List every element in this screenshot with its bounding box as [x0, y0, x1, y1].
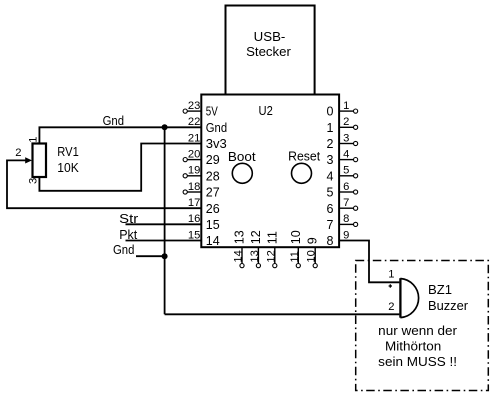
svg-text:5: 5: [327, 186, 334, 200]
svg-text:27: 27: [206, 186, 220, 200]
potentiometer RV1 body: [33, 144, 47, 178]
wire U2 pin 9 to buzzer pin 1: [339, 241, 399, 283]
svg-text:3v3: 3v3: [206, 137, 227, 151]
U2 bottom pin 10 (name 9): [306, 237, 320, 268]
svg-text:2: 2: [388, 301, 394, 313]
svg-text:23: 23: [188, 100, 200, 112]
BZ1 plus polarity mark: [389, 284, 392, 287]
junction Gnd rail top: [162, 124, 168, 130]
U2 right pin 7 (name 6): [327, 197, 358, 216]
svg-text:13: 13: [249, 250, 261, 262]
U2 left pin 19 (name 28): [183, 165, 220, 184]
svg-text:sein MUSS !!: sein MUSS !!: [378, 354, 457, 369]
svg-text:1: 1: [388, 269, 394, 281]
svg-text:Gnd: Gnd: [113, 243, 134, 257]
svg-text:10: 10: [289, 230, 303, 244]
svg-text:U2: U2: [259, 103, 273, 118]
op IC U2 body: [201, 95, 339, 248]
wire Gnd: pot pin1 to U2 pin 22: [39, 127, 201, 143]
svg-text:1: 1: [27, 137, 39, 143]
U2 right pin 2 (name 1): [327, 116, 358, 135]
svg-text:5V: 5V: [206, 105, 219, 119]
svg-text:Stecker: Stecker: [246, 44, 291, 59]
svg-text:Boot: Boot: [228, 150, 256, 164]
svg-text:BZ1: BZ1: [428, 283, 452, 297]
U2 left pin 18 (name 27): [183, 181, 220, 200]
svg-text:10K: 10K: [57, 161, 79, 175]
svg-text:2: 2: [15, 147, 21, 159]
svg-text:12: 12: [265, 250, 277, 262]
svg-text:8: 8: [327, 234, 334, 248]
svg-text:11: 11: [289, 251, 301, 263]
svg-text:10: 10: [306, 250, 318, 262]
svg-text:5: 5: [343, 165, 349, 177]
svg-text:4: 4: [343, 148, 349, 160]
button Reset circle: [292, 163, 312, 183]
svg-text:15: 15: [188, 229, 200, 241]
RV1 pin 1 (top): [38, 127, 40, 143]
svg-text:1: 1: [327, 121, 334, 135]
wire 3v3: pot pin3 to U2 pin 21: [39, 144, 201, 191]
svg-text:1: 1: [343, 100, 349, 112]
svg-text:Reset: Reset: [288, 150, 321, 164]
RV1 wiper arrow (pin 2): [25, 157, 32, 163]
U2 left pin 15 (name 14): [188, 229, 220, 248]
wire Gnd stub to rail: [136, 255, 165, 257]
U2 left pin 20 (name 29): [183, 148, 220, 167]
svg-text:14: 14: [233, 250, 245, 262]
U2 right pin 6 (name 5): [327, 181, 358, 200]
svg-text:18: 18: [188, 181, 200, 193]
svg-text:11: 11: [265, 231, 279, 244]
junction Gnd rail lower: [162, 253, 168, 259]
svg-text:16: 16: [188, 213, 200, 225]
U2 left pin 17 (name 26): [188, 197, 220, 216]
svg-text:14: 14: [206, 234, 220, 248]
button Boot circle: [232, 163, 252, 183]
svg-text:17: 17: [188, 197, 200, 209]
connector J? USB-Stecker box: [226, 6, 315, 96]
svg-text:13: 13: [233, 230, 247, 244]
svg-text:9: 9: [306, 237, 320, 244]
svg-text:7: 7: [327, 218, 334, 232]
wire Gnd vertical rail: [164, 127, 166, 314]
svg-text:Gnd: Gnd: [206, 121, 227, 135]
U2 left pin 22 (name Gnd): [188, 116, 227, 135]
svg-text:3: 3: [343, 132, 349, 144]
wire Str to U2 pin 16: [126, 223, 202, 225]
svg-text:8: 8: [343, 213, 349, 225]
wire wiper: pot pin2 to U2 pin 17: [7, 160, 201, 208]
svg-text:0: 0: [327, 105, 334, 119]
svg-text:3: 3: [327, 153, 334, 167]
svg-text:3: 3: [27, 178, 39, 184]
svg-text:Buzzer: Buzzer: [428, 299, 468, 313]
svg-text:12: 12: [249, 230, 263, 244]
U2 left pin 16 (name 15): [188, 213, 220, 232]
svg-text:26: 26: [206, 202, 220, 216]
U2 left pin 23 (name 5V): [183, 100, 218, 119]
svg-text:20: 20: [188, 148, 200, 160]
svg-text:6: 6: [327, 202, 334, 216]
U2 right pin 1 (name 0): [327, 100, 358, 119]
svg-text:Mithörton: Mithörton: [385, 338, 441, 353]
wire Gnd rail to buzzer pin 2: [165, 313, 400, 315]
svg-text:29: 29: [206, 153, 220, 167]
U2 right pin 4 (name 3): [327, 148, 358, 167]
U2 bottom pin 14 (name 13): [233, 230, 247, 267]
svg-text:2: 2: [343, 116, 349, 128]
U2 right pin 5 (name 4): [327, 165, 358, 184]
svg-text:15: 15: [206, 218, 220, 232]
U2 right pin 3 (name 2): [327, 132, 358, 151]
svg-text:6: 6: [343, 181, 349, 193]
svg-text:21: 21: [188, 132, 200, 144]
svg-text:USB-: USB-: [254, 29, 286, 44]
U2 bottom pin 11 (name 10): [289, 230, 303, 267]
svg-text:9: 9: [343, 229, 349, 241]
svg-text:19: 19: [188, 165, 200, 177]
svg-text:RV1: RV1: [57, 145, 79, 159]
buzzer BZ1 symbol: [400, 278, 418, 318]
U2 right pin 9 (name 8): [327, 229, 350, 248]
U2 bottom pin 12 (name 11): [265, 231, 279, 268]
svg-text:Gnd: Gnd: [103, 114, 124, 128]
svg-text:22: 22: [188, 116, 200, 128]
dash-dot option box: [356, 261, 489, 391]
RV1 pin 3 (bottom): [38, 177, 40, 191]
U2 bottom pin 13 (name 12): [249, 230, 263, 267]
svg-text:nur wenn der: nur wenn der: [378, 323, 457, 338]
svg-text:28: 28: [206, 169, 220, 183]
svg-text:7: 7: [343, 197, 349, 209]
U2 right pin 8 (name 7): [327, 213, 358, 232]
svg-text:2: 2: [327, 137, 334, 151]
U2 left pin 21 (name 3v3): [188, 132, 227, 151]
wire Pkt to U2 pin 15: [126, 240, 202, 242]
svg-text:4: 4: [327, 169, 334, 183]
